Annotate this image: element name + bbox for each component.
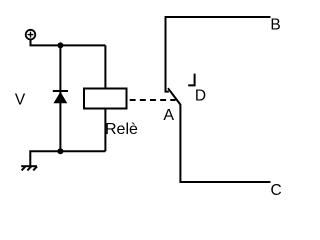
svg-text:A: A bbox=[163, 107, 174, 124]
svg-text:Relè: Relè bbox=[105, 121, 138, 138]
svg-text:B: B bbox=[270, 17, 280, 34]
svg-text:V: V bbox=[15, 91, 26, 108]
svg-text:D: D bbox=[195, 87, 206, 104]
svg-text:C: C bbox=[271, 182, 282, 199]
